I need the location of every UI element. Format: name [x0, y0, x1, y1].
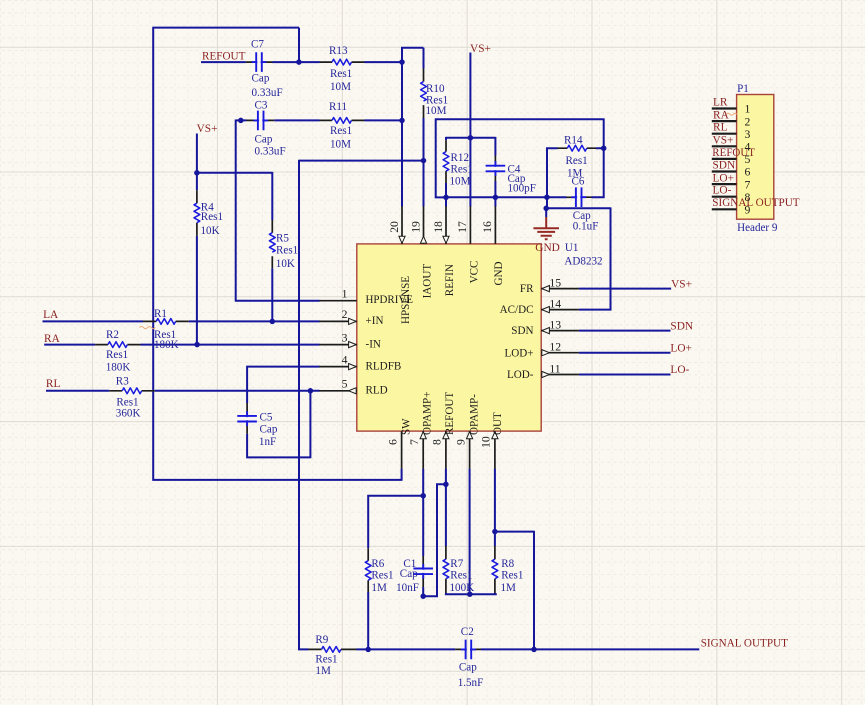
svg-text:10: 10	[480, 436, 493, 448]
svg-text:Res1: Res1	[330, 125, 352, 137]
svg-text:Cap: Cap	[400, 568, 418, 580]
svg-text:RA: RA	[44, 333, 61, 345]
svg-text:RL: RL	[713, 121, 728, 133]
svg-text:Res1: Res1	[315, 654, 337, 666]
svg-text:6: 6	[745, 166, 751, 179]
svg-text:1M: 1M	[501, 582, 517, 594]
svg-text:1M: 1M	[371, 582, 387, 594]
svg-text:+IN: +IN	[366, 315, 384, 327]
svg-text:LO+: LO+	[713, 172, 735, 184]
svg-text:VCC: VCC	[468, 261, 480, 284]
svg-text:4: 4	[342, 353, 348, 366]
svg-text:FR: FR	[520, 283, 534, 295]
svg-text:R3: R3	[116, 376, 129, 388]
svg-text:R10: R10	[426, 83, 445, 95]
svg-text:VS+: VS+	[470, 43, 491, 55]
svg-text:180K: 180K	[106, 362, 131, 374]
svg-text:R6: R6	[371, 558, 384, 570]
svg-text:SDN: SDN	[713, 159, 736, 171]
svg-text:-IN: -IN	[366, 338, 381, 350]
svg-text:18: 18	[432, 221, 445, 233]
svg-text:P1: P1	[737, 83, 749, 95]
svg-text:RL: RL	[46, 378, 61, 390]
svg-text:4: 4	[745, 141, 751, 154]
svg-text:OPAMP+: OPAMP+	[421, 392, 433, 435]
svg-text:10M: 10M	[330, 139, 351, 151]
svg-text:9: 9	[745, 204, 751, 217]
svg-text:17: 17	[456, 221, 469, 233]
svg-text:C5: C5	[260, 412, 273, 424]
svg-text:180K: 180K	[154, 339, 179, 351]
svg-text:7: 7	[408, 439, 421, 445]
svg-text:R9: R9	[315, 634, 328, 646]
svg-text:16: 16	[481, 221, 494, 233]
svg-text:LO-: LO-	[670, 364, 689, 376]
svg-text:100pF: 100pF	[508, 183, 536, 195]
svg-text:3: 3	[342, 331, 348, 344]
svg-text:19: 19	[409, 221, 422, 233]
svg-text:SW: SW	[401, 418, 413, 435]
svg-text:RA: RA	[713, 109, 730, 121]
svg-text:LR: LR	[713, 97, 728, 109]
svg-text:GND: GND	[493, 261, 505, 285]
svg-text:VS+: VS+	[671, 278, 692, 290]
svg-text:R8: R8	[501, 558, 514, 570]
svg-text:0.33uF: 0.33uF	[252, 87, 283, 99]
svg-text:Res1: Res1	[201, 211, 223, 223]
svg-text:AD8232: AD8232	[564, 255, 602, 267]
svg-text:360K: 360K	[116, 408, 141, 420]
svg-text:1M: 1M	[315, 665, 331, 677]
svg-text:LOD+: LOD+	[504, 347, 533, 359]
svg-text:1: 1	[745, 103, 751, 116]
svg-text:C3: C3	[255, 100, 268, 112]
svg-text:GND: GND	[535, 242, 560, 254]
svg-text:6: 6	[386, 439, 399, 445]
svg-text:Res1: Res1	[276, 245, 298, 257]
svg-text:2: 2	[745, 115, 751, 128]
svg-text:Cap: Cap	[252, 73, 270, 85]
svg-text:2: 2	[342, 308, 348, 321]
svg-text:100K: 100K	[450, 582, 475, 594]
svg-text:0.1uF: 0.1uF	[573, 221, 599, 233]
svg-text:SIGNAL OUTPUT: SIGNAL OUTPUT	[701, 638, 788, 650]
svg-text:REFOUT: REFOUT	[444, 392, 456, 435]
svg-text:LO+: LO+	[670, 343, 692, 355]
svg-text:IAOUT: IAOUT	[422, 264, 434, 299]
svg-text:LOD-: LOD-	[507, 369, 534, 381]
svg-text:SDN: SDN	[670, 320, 693, 332]
svg-text:R2: R2	[106, 329, 119, 341]
svg-text:VS+: VS+	[713, 135, 734, 147]
svg-text:REFIN: REFIN	[444, 264, 456, 296]
svg-text:5: 5	[342, 378, 348, 391]
svg-text:0.33uF: 0.33uF	[255, 146, 286, 158]
svg-text:Header 9: Header 9	[737, 222, 778, 234]
svg-text:R7: R7	[450, 558, 463, 570]
svg-text:Res1: Res1	[371, 570, 393, 582]
svg-text:LO-: LO-	[713, 185, 732, 197]
svg-text:REFOUT: REFOUT	[202, 51, 245, 63]
svg-text:C7: C7	[251, 39, 264, 51]
svg-text:Cap: Cap	[260, 423, 278, 435]
svg-text:14: 14	[549, 297, 561, 310]
svg-text:RLDFB: RLDFB	[366, 360, 402, 372]
svg-text:C6: C6	[572, 176, 585, 188]
svg-text:RLD: RLD	[366, 385, 388, 397]
svg-text:7: 7	[745, 178, 751, 191]
svg-text:1: 1	[342, 288, 348, 301]
svg-text:Res1: Res1	[501, 570, 523, 582]
svg-text:OPAMP-: OPAMP-	[468, 394, 480, 435]
svg-text:R12: R12	[451, 152, 470, 164]
svg-text:OUT: OUT	[492, 412, 504, 435]
svg-text:8: 8	[431, 439, 444, 445]
svg-text:10M: 10M	[426, 105, 447, 117]
svg-text:5: 5	[745, 153, 751, 166]
svg-text:Res1: Res1	[451, 164, 473, 176]
svg-text:AC/DC: AC/DC	[500, 304, 534, 316]
svg-text:9: 9	[454, 439, 467, 445]
svg-text:15: 15	[549, 276, 561, 289]
svg-text:13: 13	[549, 318, 561, 331]
svg-text:10K: 10K	[201, 225, 220, 237]
svg-text:Cap: Cap	[255, 134, 273, 146]
svg-text:10M: 10M	[330, 81, 351, 93]
svg-text:HPSENSE: HPSENSE	[400, 276, 412, 324]
svg-text:1nF: 1nF	[259, 436, 276, 448]
svg-text:C2: C2	[461, 626, 474, 638]
svg-text:R11: R11	[329, 101, 347, 113]
svg-text:10nF: 10nF	[396, 582, 419, 594]
svg-text:SIGNAL OUTPUT: SIGNAL OUTPUT	[712, 197, 799, 209]
svg-text:1.5nF: 1.5nF	[458, 677, 484, 689]
svg-text:Res1: Res1	[450, 570, 472, 582]
svg-text:Cap: Cap	[459, 661, 477, 673]
svg-text:VS+: VS+	[197, 123, 218, 135]
svg-text:10K: 10K	[276, 258, 295, 270]
svg-text:3: 3	[745, 128, 751, 141]
svg-text:10M: 10M	[450, 176, 471, 188]
svg-text:Res1: Res1	[566, 155, 588, 167]
svg-text:Res1: Res1	[106, 349, 128, 361]
svg-text:R5: R5	[276, 233, 289, 245]
svg-text:11: 11	[549, 362, 560, 375]
svg-text:U1: U1	[565, 242, 579, 254]
svg-text:SDN: SDN	[511, 325, 533, 337]
svg-text:20: 20	[388, 221, 401, 233]
svg-text:Res1: Res1	[330, 68, 352, 80]
svg-text:R14: R14	[564, 135, 583, 147]
svg-text:R13: R13	[329, 45, 348, 57]
svg-text:LA: LA	[43, 309, 59, 321]
svg-text:8: 8	[745, 191, 751, 204]
svg-text:12: 12	[549, 341, 561, 354]
svg-text:R1: R1	[154, 308, 167, 320]
